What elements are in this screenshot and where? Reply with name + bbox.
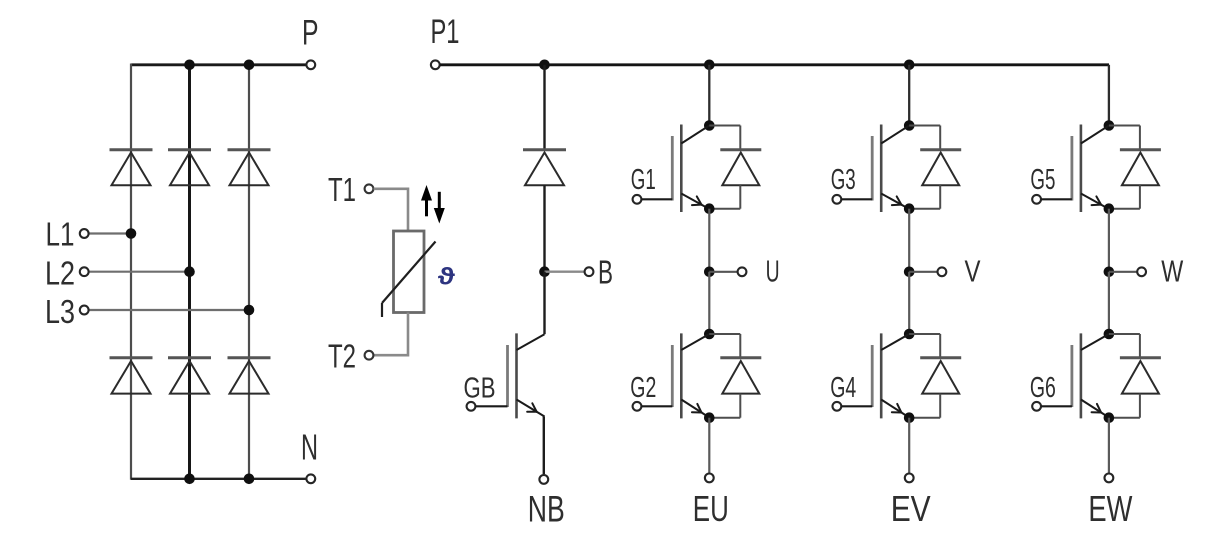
svg-text:G4: G4: [830, 372, 856, 404]
wire left column: [130, 64, 132, 480]
wire lower freewheel branch top: [909, 333, 940, 335]
diode D4 lower left: [110, 356, 153, 359]
wire lower freewheel branch bottom: [939, 394, 941, 418]
terminal G5 gate: [1032, 195, 1041, 204]
thermistor diagonal foot: [381, 303, 383, 317]
temperature arrow down: [438, 192, 441, 210]
transistor QB brake IGBT: [515, 333, 518, 418]
svg-text:V: V: [965, 254, 981, 289]
thermistor diagonal stroke: [382, 242, 436, 304]
transistor G6 lower IGBT: [1080, 333, 1083, 418]
wire phase node to lower IGBT: [1108, 272, 1110, 335]
wire upper emitter to phase node: [908, 209, 910, 272]
wire rail to upper IGBT: [908, 65, 910, 126]
wire G1 gate lead: [642, 198, 673, 200]
wire T1 to thermistor: [374, 189, 408, 231]
svg-text:G5: G5: [1030, 164, 1055, 196]
diode freewheel upper G3: [920, 148, 961, 151]
svg-text:N: N: [301, 427, 318, 468]
diode D6 lower middle: [168, 356, 211, 359]
wire IGBT emitter to NB: [543, 417, 545, 475]
junction lower emitter node: [704, 412, 715, 423]
wire G5 gate lead: [1041, 198, 1072, 200]
node B junction: [539, 266, 550, 277]
svg-text:B: B: [598, 254, 613, 291]
wire bottom bus N: [131, 478, 307, 480]
svg-text:P: P: [302, 13, 319, 52]
wire phase node to lower IGBT: [708, 272, 710, 335]
svg-text:P1: P1: [431, 13, 460, 51]
transistor G4 lower IGBT: [880, 333, 883, 418]
svg-text:T2: T2: [328, 338, 356, 375]
junction L1 / left column: [126, 228, 137, 239]
svg-text:G1: G1: [631, 164, 656, 196]
wire lower freewheel branch top: [1109, 333, 1140, 335]
terminal V: [938, 267, 947, 276]
diode D3 upper middle: [168, 148, 211, 151]
wire lower emitter to EV: [908, 418, 910, 473]
wire lower emitter to EW: [1108, 418, 1110, 473]
wire upper freewheel branch top: [1109, 125, 1140, 127]
wire node B stub: [545, 271, 585, 273]
wire rail to upper IGBT: [1108, 65, 1110, 126]
svg-text:NB: NB: [528, 489, 565, 530]
junction on top bus at right column: [244, 60, 255, 71]
wire G4 gate lead: [842, 405, 873, 407]
terminal L2: [80, 267, 89, 276]
svg-text:W: W: [1161, 254, 1184, 289]
thermistor RT1: [328, 171, 455, 375]
wire L3: [89, 309, 249, 311]
thermistor body: [394, 231, 425, 313]
svg-text:U: U: [766, 254, 780, 289]
wire thermistor to T2: [374, 313, 408, 356]
wire P1 rail: [440, 63, 1109, 66]
wire rail to upper IGBT: [708, 65, 710, 126]
inverter leg W: [1030, 65, 1184, 529]
diode freewheel upper G1: [720, 148, 761, 151]
wire upper freewheel branch top: [709, 125, 740, 127]
terminal G3 gate: [833, 195, 842, 204]
transistor G2 lower IGBT: [680, 333, 683, 418]
transistor G1 upper IGBT: [680, 125, 683, 213]
svg-text:EU: EU: [693, 488, 729, 529]
junction L3 / right column: [244, 305, 255, 316]
wire upper freewheel branch bottom: [939, 185, 941, 209]
brake chopper branch: [464, 60, 614, 530]
terminal EU: [705, 474, 714, 483]
temperature arrow up: [425, 197, 428, 216]
transistor G5 upper IGBT: [1080, 125, 1083, 213]
svg-text:GB: GB: [464, 372, 496, 404]
wire node B to IGBT collector: [543, 272, 545, 335]
terminal L3: [80, 306, 89, 315]
inverter leg V: [830, 60, 981, 530]
terminal U: [738, 267, 747, 276]
terminal B: [585, 267, 594, 276]
wire right column: [248, 65, 250, 479]
terminal G1 gate: [633, 195, 642, 204]
junction L2 / middle column: [184, 266, 195, 277]
junction on bottom bus at right column: [244, 474, 255, 485]
wire upper freewheel branch top: [909, 125, 940, 127]
wire lower freewheel branch bottom: [739, 394, 741, 418]
terminal W: [1137, 267, 1146, 276]
wire upper emitter to phase node: [1108, 209, 1110, 272]
wire upper freewheel branch bottom: [739, 185, 741, 209]
diode freewheel lower G6: [1120, 356, 1161, 359]
wire G2 gate lead: [642, 405, 673, 407]
wire upper freewheel branch bottom: [1139, 185, 1141, 209]
junction on top bus at middle column: [184, 60, 195, 71]
terminal L1: [80, 229, 89, 238]
wire middle column: [188, 65, 191, 479]
junction lower collector node: [704, 329, 715, 340]
terminal NB: [539, 475, 548, 484]
junction upper emitter node: [1104, 203, 1115, 214]
terminal G4 gate: [833, 402, 842, 411]
junction on bottom bus at middle column: [184, 474, 195, 485]
wire L2: [89, 271, 190, 273]
diode freewheel lower G2: [720, 356, 761, 359]
wire phase node to lower IGBT: [908, 272, 910, 335]
svg-text:ϑ: ϑ: [438, 264, 455, 291]
terminal G6 gate: [1032, 402, 1041, 411]
transistor G3 upper IGBT: [880, 125, 883, 213]
node U junction: [704, 267, 715, 278]
svg-text:L1: L1: [46, 216, 75, 253]
wire G6 gate lead: [1041, 405, 1072, 407]
terminal P: [306, 60, 315, 69]
terminal P1: [431, 60, 440, 69]
DC+ rail P1: [431, 13, 1110, 69]
junction rail / leg V: [904, 60, 915, 71]
wire node V stub: [909, 271, 938, 273]
svg-text:G2: G2: [630, 372, 656, 404]
wire rail to brake diode: [543, 65, 545, 150]
svg-text:L3: L3: [45, 293, 75, 330]
wire upper emitter to phase node: [708, 209, 710, 272]
wire G3 gate lead: [842, 198, 873, 200]
diode D2 lower right: [228, 356, 271, 359]
svg-text:EW: EW: [1088, 488, 1132, 529]
terminal EW: [1105, 474, 1114, 483]
junction lower emitter node: [1104, 412, 1115, 423]
svg-text:G3: G3: [831, 164, 856, 196]
junction lower collector node: [904, 329, 915, 340]
svg-text:L2: L2: [45, 255, 75, 292]
wire GB gate lead: [476, 405, 508, 407]
svg-text:G6: G6: [1030, 372, 1056, 404]
wire node W stub: [1109, 271, 1138, 273]
diode freewheel upper G5: [1120, 148, 1161, 151]
three-phase rectifier bridge: [45, 13, 318, 484]
junction upper emitter node: [704, 203, 715, 214]
wire top bus P: [131, 63, 307, 66]
terminal T2: [365, 351, 374, 360]
junction lower collector node: [1104, 329, 1115, 340]
junction rail / brake branch: [539, 60, 550, 71]
wire L1: [89, 232, 131, 234]
terminal N: [306, 474, 315, 483]
wire lower freewheel branch top: [709, 333, 740, 335]
wire lower emitter to EU: [708, 418, 710, 473]
terminal G2 gate: [633, 402, 642, 411]
wire lower freewheel branch bottom: [1139, 394, 1141, 418]
junction lower emitter node: [904, 412, 915, 423]
terminal EV: [905, 474, 914, 483]
diode D1 upper left: [110, 148, 153, 151]
junction upper emitter node: [904, 203, 915, 214]
wire brake diode to node B: [543, 185, 545, 272]
svg-text:EV: EV: [891, 488, 931, 529]
node W junction: [1104, 267, 1115, 278]
diode freewheel lower G4: [920, 356, 961, 359]
junction upper collector node: [704, 120, 715, 131]
terminal T1: [365, 184, 374, 193]
junction rail / leg U: [704, 60, 715, 71]
terminal GB gate: [467, 402, 476, 411]
junction upper collector node: [1104, 120, 1115, 131]
diode D5 upper right: [228, 148, 271, 151]
diode D7 brake: [523, 148, 566, 151]
svg-text:T1: T1: [328, 171, 356, 208]
junction upper collector node: [904, 120, 915, 131]
node V junction: [904, 267, 915, 278]
inverter leg U: [630, 60, 779, 530]
wire node U stub: [709, 271, 738, 273]
